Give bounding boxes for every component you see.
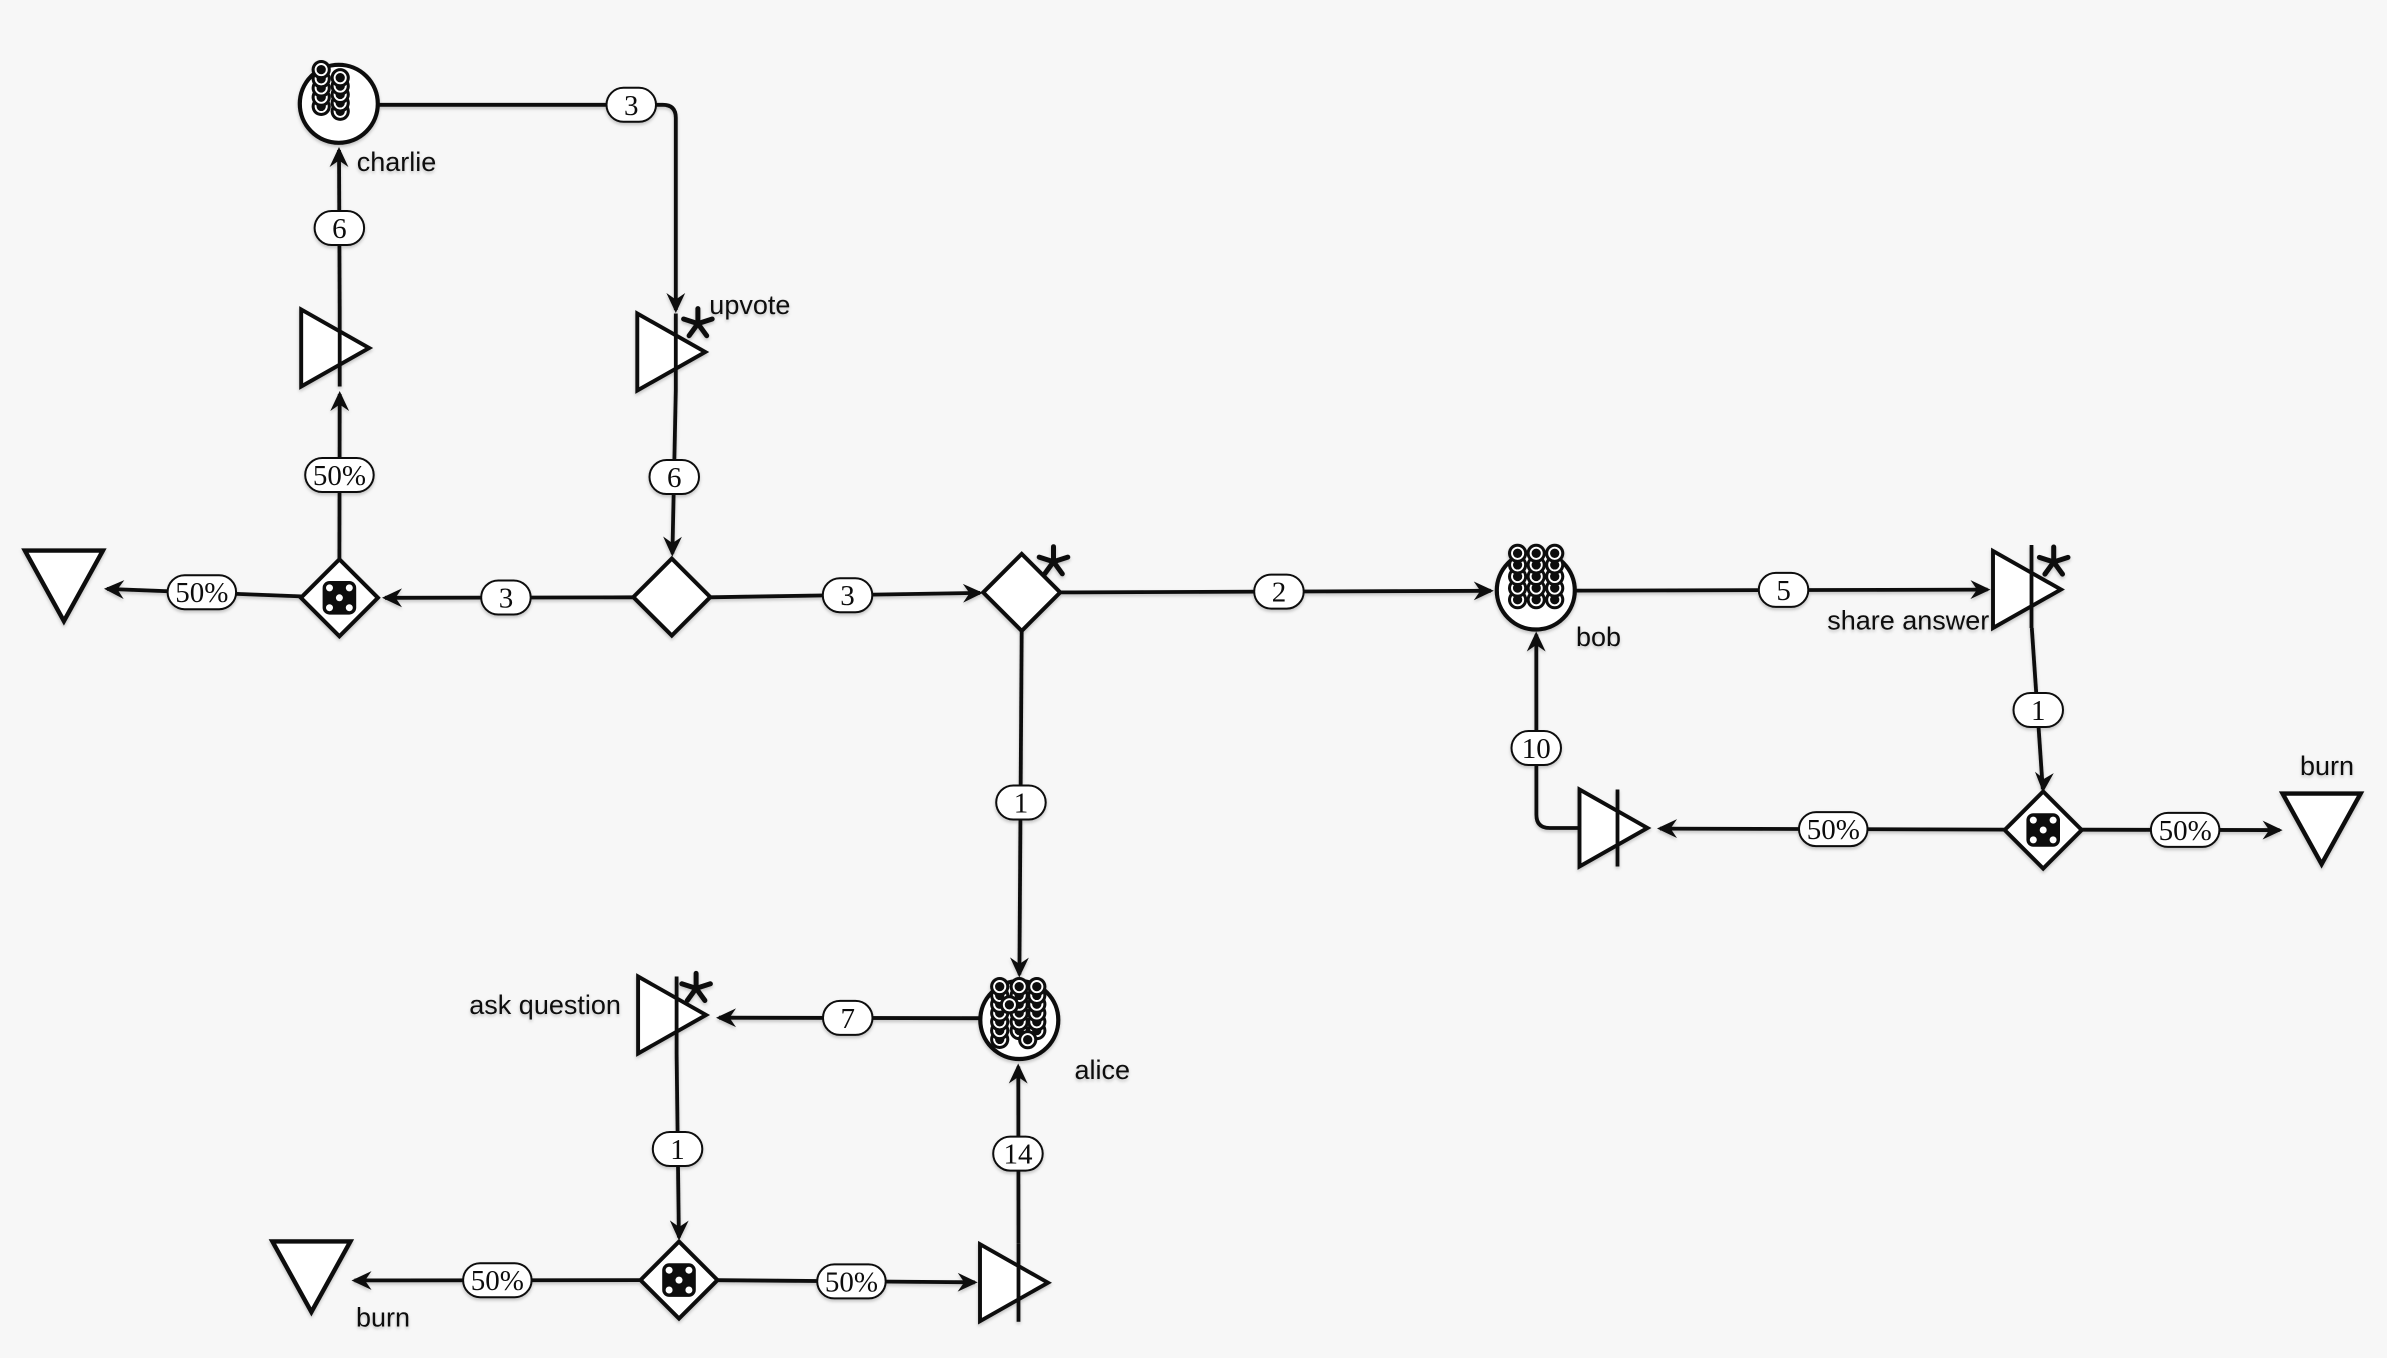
tokens in charlie (left stack) <box>312 60 331 116</box>
rate pill 10 on K2-bob wire <box>1512 731 1562 765</box>
wire random gate R3 to drain burn (top right) <box>2082 821 2283 840</box>
wire random gate R1 to drain D1 <box>104 579 301 599</box>
probability pill 50% on R3-burn wire <box>2151 813 2220 847</box>
svg-text:50%: 50% <box>313 460 366 492</box>
svg-text:2: 2 <box>1272 577 1287 609</box>
wire pool bob to share-answer converter <box>1575 580 1991 599</box>
wire charlie to upvote converter with corner <box>378 105 685 313</box>
rate pill 3 on G1-R1 wire <box>481 581 531 615</box>
svg-text:7: 7 <box>841 1003 856 1035</box>
converter share answer <box>1993 545 2061 628</box>
tokens in bob (right stack) <box>1545 544 1564 610</box>
wire gate G1 to gate G2 <box>709 584 983 603</box>
svg-text:50%: 50% <box>2159 815 2212 847</box>
pool alice <box>980 981 1058 1059</box>
label charlie <box>357 147 437 177</box>
svg-text:50%: 50% <box>825 1266 878 1298</box>
tokens in alice (middle stack) <box>1010 977 1029 1040</box>
rate pill 14 on K3-alice wire <box>993 1137 1042 1171</box>
rate pill 3 on G1-G2 wire <box>823 578 873 612</box>
converter K2 (to bob) <box>1580 790 1648 867</box>
wire ask-question converter down to random gate R2 <box>670 1054 689 1241</box>
converter K3 (to alice) <box>980 1244 1048 1322</box>
label alice <box>1075 1055 1131 1085</box>
converter ask question <box>638 977 706 1054</box>
rate pill 6 on K1-charlie wire <box>315 211 365 245</box>
wire random gate R2 to converter K3 <box>718 1273 978 1292</box>
svg-text:50%: 50% <box>1807 814 1860 846</box>
pool bob <box>1497 552 1575 630</box>
svg-text:1: 1 <box>670 1134 685 1166</box>
random gate R2 (dice diamond) <box>641 1242 718 1319</box>
token in alice (loose, middle-left) <box>1000 995 1019 1014</box>
wire gate G2 down to pool alice <box>1010 631 1029 978</box>
svg-text:alice: alice <box>1075 1055 1131 1085</box>
interactive asterisk on share answer <box>2039 547 2068 574</box>
probability pill 50% on R3-K2 wire <box>1799 812 1868 846</box>
random gate R1 (dice diamond) <box>301 559 378 636</box>
drain burn (bottom left) <box>272 1241 350 1312</box>
drain burn (top right) <box>2283 794 2361 865</box>
rate pill 1 on ask-R2 wire <box>653 1132 703 1166</box>
svg-text:1: 1 <box>2031 695 2046 727</box>
token in alice (loose, bottom-right) <box>1018 1030 1037 1049</box>
svg-text:5: 5 <box>1776 575 1791 607</box>
wire upvote converter to gate G1 <box>663 391 682 557</box>
interactive asterisk on gate G2 <box>1039 547 1068 574</box>
label ask question <box>469 990 621 1020</box>
probability pill 50% on R2-K3 wire <box>817 1264 886 1298</box>
svg-text:3: 3 <box>624 90 639 122</box>
wire share-answer converter down to random gate R3 <box>2032 628 2054 793</box>
tokens in alice (right stack) <box>1027 977 1046 1040</box>
svg-text:3: 3 <box>499 583 514 615</box>
probability pill 50% on R2-burn wire <box>463 1263 531 1297</box>
svg-text:6: 6 <box>667 462 682 494</box>
wire pool alice to ask-question converter <box>716 1008 980 1027</box>
wire converter K2 up to pool bob with corner <box>1527 632 1579 829</box>
rate pill 3 on charlie-upvote wire <box>607 88 657 122</box>
converter K1 (to charlie) <box>301 310 369 387</box>
wire converter K1 to pool charlie <box>330 147 349 310</box>
rate pill 5 on bob-share wire <box>1759 573 1809 607</box>
rate pill 1 on share-R3 wire <box>2014 693 2064 727</box>
svg-text:3: 3 <box>840 580 855 612</box>
svg-text:upvote: upvote <box>709 290 790 320</box>
wire random gate R2 to drain burn (bottom left) <box>352 1271 641 1290</box>
drain D1 (unlabeled, left) <box>25 551 103 622</box>
pool charlie <box>300 65 378 143</box>
wire random gate R3 to converter K2 <box>1657 819 2005 838</box>
svg-text:50%: 50% <box>175 577 228 609</box>
random gate R3 (dice diamond) <box>2005 792 2082 869</box>
svg-text:6: 6 <box>332 213 347 245</box>
svg-text:50%: 50% <box>471 1265 524 1297</box>
svg-text:10: 10 <box>1522 733 1551 765</box>
rate pill 1 on G2-alice wire <box>996 786 1045 820</box>
svg-text:ask question: ask question <box>469 990 621 1020</box>
rate pill 2 on G2-bob wire <box>1254 575 1304 609</box>
label burn (top right) <box>2300 751 2354 781</box>
svg-text:charlie: charlie <box>357 147 437 177</box>
svg-text:share answer: share answer <box>1827 606 1989 636</box>
wire converter K3 up to pool alice <box>1009 1064 1028 1244</box>
label share answer <box>1827 606 1989 636</box>
wire random gate R1 up to converter K1 <box>330 391 349 559</box>
svg-text:burn: burn <box>356 1303 410 1333</box>
wire gate G2 to pool bob <box>1060 581 1494 600</box>
label burn (bottom left) <box>356 1303 410 1333</box>
rate pill 6 on upvote-G1 wire <box>650 460 700 494</box>
tokens in alice (left stack) <box>990 977 1009 1049</box>
interactive asterisk on upvote <box>684 309 713 336</box>
svg-text:burn: burn <box>2300 751 2354 781</box>
interactive asterisk on ask question <box>682 973 711 1000</box>
label upvote <box>709 290 790 320</box>
svg-text:14: 14 <box>1004 1139 1034 1171</box>
label bob <box>1576 622 1621 652</box>
tokens in bob (middle stack) <box>1527 544 1546 610</box>
rate pill 7 on alice-ask wire <box>823 1001 873 1035</box>
converter upvote <box>637 314 705 391</box>
probability pill 50% on R1-D1 wire <box>168 575 237 609</box>
wire gate G1 to random gate R1 <box>382 588 634 607</box>
svg-text:1: 1 <box>1014 788 1029 820</box>
gate G1 (empty diamond) <box>633 559 710 636</box>
svg-text:bob: bob <box>1576 622 1621 652</box>
gate G2 (diamond) <box>983 554 1060 631</box>
tokens in charlie (right stack) <box>331 68 350 121</box>
tokens in bob (left stack) <box>1508 544 1527 610</box>
probability pill 50% on R1-K1 wire <box>305 458 374 492</box>
